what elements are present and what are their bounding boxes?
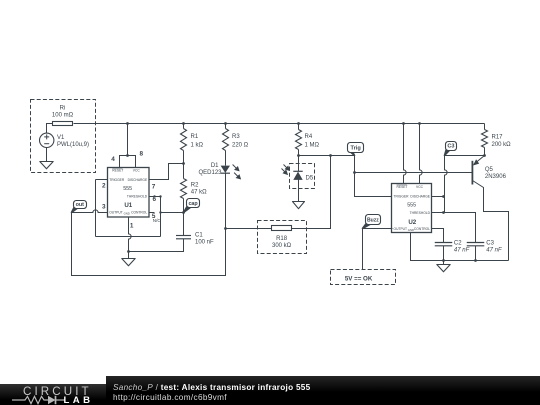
svg-text:R17: R17 [492, 135, 504, 141]
svg-text:R3: R3 [232, 134, 240, 140]
svg-text:47 nF: 47 nF [454, 247, 470, 253]
svg-text:VCC: VCC [133, 168, 141, 172]
svg-text:100 nF: 100 nF [195, 239, 214, 245]
svg-text:47 kΩ: 47 kΩ [191, 189, 207, 195]
svg-text:U1: U1 [124, 202, 132, 209]
svg-text:TRIGGER: TRIGGER [394, 194, 410, 198]
svg-text:47 nF: 47 nF [486, 247, 502, 253]
svg-text:THRESHOLD: THRESHOLD [127, 194, 148, 198]
svg-text:RESET: RESET [397, 185, 408, 189]
svg-text:TRIGGER: TRIGGER [109, 178, 125, 182]
svg-text:D1: D1 [211, 163, 219, 169]
svg-text:5V == OK: 5V == OK [345, 275, 373, 282]
svg-text:555: 555 [123, 186, 132, 192]
svg-text:THRESHOLD: THRESHOLD [410, 211, 431, 215]
svg-text:RESET: RESET [112, 168, 123, 172]
svg-text:R1: R1 [191, 134, 199, 140]
svg-text:C1: C1 [195, 232, 203, 238]
svg-text:CONTROL: CONTROL [131, 210, 147, 214]
svg-text:R4: R4 [305, 134, 313, 140]
svg-text:2: 2 [102, 182, 106, 189]
svg-text:220 Ω: 220 Ω [232, 143, 249, 149]
svg-text:C3: C3 [486, 240, 494, 246]
svg-text:GND: GND [124, 212, 130, 216]
svg-text:Trig: Trig [351, 145, 362, 151]
svg-text:C3: C3 [447, 144, 454, 150]
svg-text:3: 3 [102, 203, 106, 210]
svg-text:R2: R2 [191, 182, 199, 188]
svg-text:DISCHARGE: DISCHARGE [410, 194, 430, 198]
svg-text:VCC: VCC [416, 185, 424, 189]
svg-text:4: 4 [111, 156, 115, 163]
svg-text:U2: U2 [408, 219, 416, 226]
svg-text:1 MΩ: 1 MΩ [305, 143, 320, 149]
svg-text:DISCHARGE: DISCHARGE [128, 178, 148, 182]
svg-text:Q5: Q5 [485, 167, 494, 173]
svg-text:300 kΩ: 300 kΩ [272, 243, 292, 249]
svg-text:QED123: QED123 [198, 170, 222, 176]
svg-text:CONTROL: CONTROL [414, 227, 430, 231]
svg-text:555: 555 [407, 203, 416, 209]
svg-text:R18: R18 [276, 236, 288, 242]
svg-text:Buzz: Buzz [367, 218, 379, 224]
svg-text:cap: cap [188, 201, 198, 207]
svg-text:V1: V1 [57, 135, 65, 141]
svg-text:7: 7 [152, 184, 156, 191]
svg-text:OUTPUT: OUTPUT [109, 210, 123, 214]
svg-text:1: 1 [130, 222, 134, 229]
svg-text:1 kΩ: 1 kΩ [191, 143, 204, 149]
svg-text:200 kΩ: 200 kΩ [492, 142, 512, 148]
svg-text:D5: D5 [306, 176, 314, 182]
svg-text:PWL(10u,9): PWL(10u,9) [57, 142, 89, 148]
svg-text:out: out [76, 202, 85, 208]
svg-text:2N3906: 2N3906 [485, 174, 507, 180]
svg-text:100 mΩ: 100 mΩ [52, 113, 74, 119]
svg-text:8: 8 [140, 151, 144, 158]
svg-text:OUTPUT: OUTPUT [394, 227, 408, 231]
svg-text:C2: C2 [454, 240, 462, 246]
svg-text:Ri: Ri [60, 106, 66, 112]
